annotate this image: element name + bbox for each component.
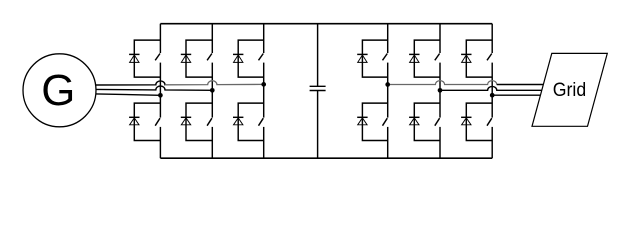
diode D8 (antiparallel, lower, grid leg a): [357, 117, 367, 125]
diode D7 (antiparallel, upper, grid leg a): [357, 54, 367, 62]
wire: lower cell branch box, grid leg b: [414, 103, 440, 140]
capacitor C1 (DC link): [310, 24, 326, 159]
wire: grid leg c vertical segments: [491, 24, 493, 159]
grid (utility) symbol: [532, 53, 607, 126]
node: machine leg a midpoint junction: [158, 93, 163, 98]
switch S5 (upper IGBT, machine leg c): [259, 54, 264, 61]
wire: upper cell branch box, grid leg c: [466, 40, 492, 77]
wire: machine phase c (G to leg a midpoint): [96, 94, 161, 95]
wire: lower cell branch box, machine leg b: [186, 103, 212, 140]
wire: grid phase c (leg c midpoint to Grid): [492, 94, 540, 96]
switch S10 (lower IGBT, grid leg b): [435, 118, 440, 126]
wire: grid leg b vertical segments: [439, 24, 441, 159]
switch S1 (upper IGBT, machine leg a): [155, 54, 160, 61]
node: machine leg b midpoint junction: [210, 88, 215, 93]
diode D5 (antiparallel, upper, machine leg c): [233, 54, 243, 62]
wire: grid phase b (leg b midpoint to Grid, hops leg c): [440, 86, 542, 90]
diode D3 (antiparallel, upper, machine leg b): [181, 54, 191, 62]
wire: lower cell branch box, machine leg a: [134, 103, 160, 140]
node: machine leg c midpoint junction: [261, 82, 266, 87]
wire: machine phase a (G to leg c midpoint, hops legs a,b): [96, 81, 264, 85]
generator G (machine): [23, 54, 96, 127]
switch S2 (lower IGBT, machine leg a): [155, 118, 160, 126]
node: grid leg c midpoint junction: [490, 93, 495, 98]
node: grid leg a midpoint junction: [385, 82, 390, 87]
wire: upper cell branch box, machine leg c: [238, 40, 264, 77]
diode D2 (antiparallel, lower, machine leg a): [129, 117, 139, 125]
switch S12 (lower IGBT, grid leg c): [487, 118, 492, 126]
switch S7 (upper IGBT, grid leg a): [383, 54, 388, 61]
wire: lower cell branch box, grid leg a: [362, 103, 387, 140]
diode D11 (antiparallel, upper, grid leg c): [461, 54, 471, 62]
switch S6 (lower IGBT, machine leg c): [259, 118, 264, 126]
wire: upper cell branch box, grid leg b: [414, 40, 440, 77]
switch S4 (lower IGBT, machine leg b): [207, 118, 212, 126]
switch S11 (upper IGBT, grid leg c): [487, 54, 492, 61]
diode D12 (antiparallel, lower, grid leg c): [461, 117, 471, 125]
diode D10 (antiparallel, lower, grid leg b): [409, 117, 419, 125]
wire: machine phase b (G to leg b midpoint, hops leg a): [96, 86, 212, 90]
wire: DC- bus: [160, 157, 492, 159]
wire: upper cell branch box, machine leg b: [186, 40, 212, 77]
wire: grid phase a (leg a midpoint to Grid, hops legs b,c): [388, 81, 544, 85]
wire: lower cell branch box, machine leg c: [238, 103, 264, 140]
switch S8 (lower IGBT, grid leg a): [383, 118, 388, 126]
wire: upper cell branch box, grid leg a: [362, 40, 387, 77]
wire: machine leg c vertical segments: [263, 24, 265, 159]
wire: machine leg a vertical segments: [159, 24, 161, 159]
diode D9 (antiparallel, upper, grid leg b): [409, 54, 419, 62]
switch S9 (upper IGBT, grid leg b): [435, 54, 440, 61]
wire: upper cell branch box, machine leg a: [134, 40, 160, 77]
node: grid leg b midpoint junction: [438, 88, 443, 93]
wire: DC+ bus: [160, 23, 492, 25]
svg-text:G: G: [41, 66, 75, 115]
wire: grid leg a vertical segments: [387, 24, 389, 159]
diode D6 (antiparallel, lower, machine leg c): [233, 117, 243, 125]
diode D1 (antiparallel, upper, machine leg a): [129, 54, 139, 62]
wire: machine leg b vertical segments: [211, 24, 213, 159]
diode D4 (antiparallel, lower, machine leg b): [181, 117, 191, 125]
wire: lower cell branch box, grid leg c: [466, 103, 492, 140]
switch S3 (upper IGBT, machine leg b): [207, 54, 212, 61]
svg-text:Grid: Grid: [553, 79, 586, 101]
